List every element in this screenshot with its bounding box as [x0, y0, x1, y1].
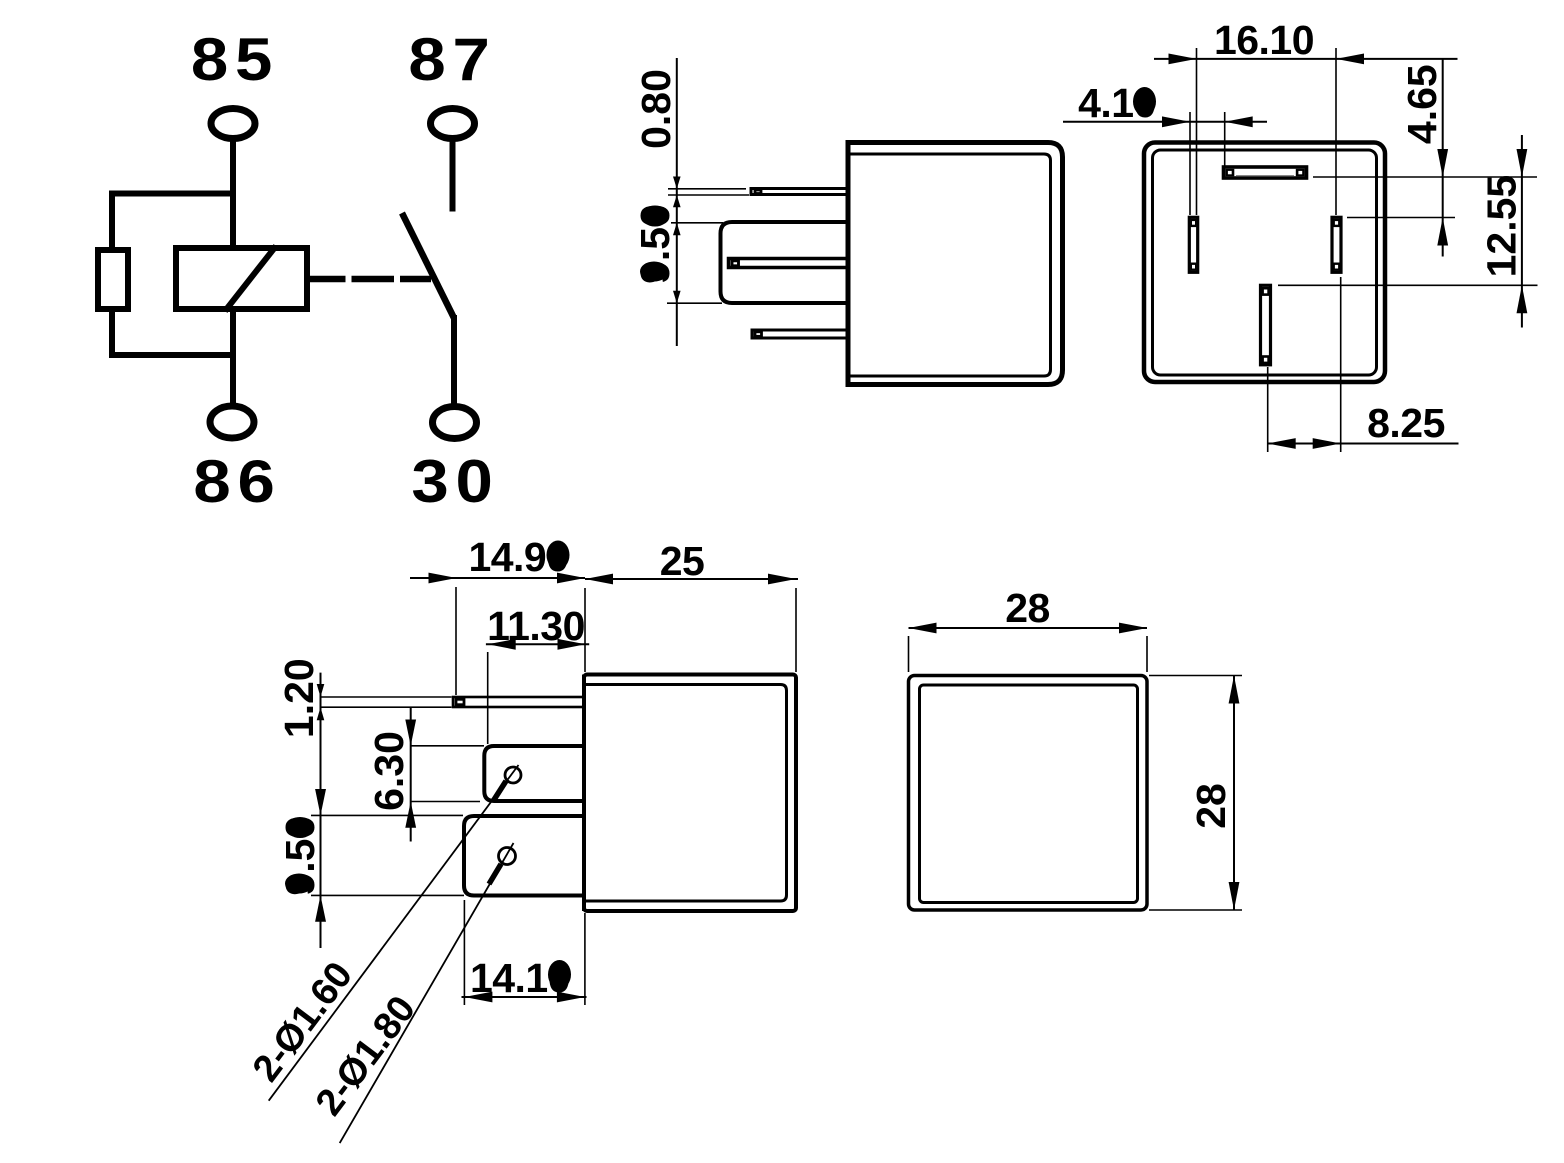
slot pin 86 (left vertical): [1189, 217, 1197, 272]
svg-text:86: 86: [193, 448, 281, 515]
lower shroud 9.50: [464, 816, 584, 896]
extension lines side view 2: [311, 587, 796, 1005]
dimension 28 height: [1188, 676, 1239, 911]
switch blade SW: [402, 213, 454, 318]
body left edge line (side view): [846, 143, 851, 385]
terminal label 87: [408, 26, 496, 93]
wire bottom link from resistor to node 86: [112, 309, 233, 355]
svg-text:30: 30: [411, 448, 499, 515]
svg-text:28: 28: [1005, 585, 1050, 631]
svg-text:8.25: 8.25: [1367, 400, 1445, 446]
svg-text:0.80: 0.80: [633, 69, 679, 149]
hole 1.80: [499, 848, 516, 865]
dim text 1.20: [276, 658, 322, 738]
arrows 9.50: [673, 223, 681, 303]
coil diagonal stripe: [225, 246, 276, 311]
terminal label 85: [191, 26, 279, 93]
slot pin 30 (top horizontal): [1224, 167, 1307, 178]
terminal label 86: [193, 448, 281, 515]
dashed actuator link: [310, 276, 431, 283]
slot pin 85 (right vertical): [1332, 217, 1341, 272]
extension ticks pin edges: [667, 189, 749, 303]
terminal circle 30: [433, 407, 477, 439]
svg-text:12.55: 12.55: [1479, 175, 1525, 278]
wire from coil to terminal 86: [230, 309, 236, 404]
dimension 28 width: [909, 585, 1148, 633]
dimension 25: [585, 538, 798, 584]
pin 3 bottom: [752, 330, 848, 338]
terminal circle 87: [431, 109, 475, 139]
pin top 1.20 thick: [453, 697, 584, 707]
wire top link from node 85 to resistor: [112, 194, 233, 251]
svg-text:25: 25: [660, 538, 705, 584]
extension lines front view: [909, 636, 1243, 910]
relay body bottom view: [1144, 143, 1385, 383]
svg-text:28: 28: [1188, 783, 1234, 829]
dim text 9.50: [632, 204, 678, 284]
arrows 0.80: [673, 177, 681, 208]
pin 2 middle: [729, 259, 849, 268]
dim text 0.80: [633, 69, 679, 149]
dimension 16.10: [1154, 17, 1458, 64]
relay body side view 2: [584, 675, 796, 912]
relay coil K1: [176, 248, 307, 309]
leader 2-D1.80: [308, 843, 514, 1143]
connector shroud (side): [721, 222, 849, 303]
resistor R (parallel to coil): [98, 250, 128, 309]
dimension 14.10: [462, 955, 587, 1002]
wire from terminal 87 to switch: [450, 140, 456, 212]
hole 1.60: [505, 767, 521, 783]
dimension 12.55: [1479, 135, 1528, 328]
svg-text:85: 85: [191, 26, 279, 93]
dimension 11.30: [486, 603, 589, 650]
terminal label 30: [411, 448, 499, 515]
dimension 4.10: [1063, 80, 1267, 127]
extension lines bottom view: [1190, 48, 1538, 452]
dimension 14.90: [410, 534, 585, 583]
dimension 4.65: [1399, 59, 1448, 257]
dimension line 0.80 / 9.50 vertical: [676, 58, 678, 346]
terminal circle 86: [210, 406, 254, 438]
wire from terminal 85 to coil: [230, 140, 236, 248]
svg-text:4.65: 4.65: [1399, 64, 1445, 144]
svg-text:6.30: 6.30: [366, 731, 412, 811]
dimension 1.20 / 9.50 vertical line: [320, 673, 322, 948]
middle shroud 6.30: [484, 746, 584, 801]
svg-text:16.10: 16.10: [1214, 17, 1314, 63]
dimension 8.25: [1268, 400, 1459, 449]
arrows 9.50 lower: [315, 789, 326, 922]
wire from switch to terminal 30: [451, 315, 457, 404]
leader 2-D1.60: [245, 765, 519, 1101]
svg-text:11.30: 11.30: [487, 603, 585, 649]
relay body front view: [909, 676, 1148, 911]
svg-text:87: 87: [408, 26, 496, 93]
terminal circle 85: [211, 109, 255, 139]
pin 1 top (0.80 thick): [751, 189, 848, 195]
body left edge line (side view 2): [582, 675, 586, 912]
slot pin 87 (bottom vertical): [1261, 285, 1271, 365]
svg-text:1.20: 1.20: [276, 658, 322, 738]
dimension 6.30: [366, 707, 416, 842]
relay body side view: [848, 143, 1063, 385]
dim text 9.50 lower: [277, 816, 323, 896]
arrows 1.20: [317, 684, 325, 720]
